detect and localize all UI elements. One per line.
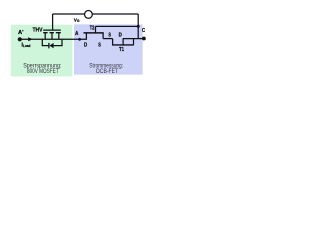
transistor T2 drain stub (85, 33, 87, 39)
transistor T1 left stub (112, 39, 114, 45)
transistor THV channel segments (43, 32, 61, 34)
body diode triangle (49, 43, 53, 48)
svg-text:C: C (142, 28, 145, 34)
svg-text:T2: T2 (90, 26, 95, 32)
transistor T2 source stub (102, 33, 104, 39)
node C dot (142, 37, 146, 41)
svg-text:S: S (98, 42, 101, 48)
wire: main load path left (20, 38, 87, 40)
svg-text:OCB-FET: OCB-FET (96, 68, 119, 75)
wire: T2 gate line (96, 25, 139, 27)
svg-text:S: S (108, 33, 111, 39)
voltage source V_G circle (85, 11, 93, 19)
svg-text:THV: THV (33, 27, 43, 33)
transistor THV gate bar (43, 29, 61, 31)
wire: gate rail top (53, 13, 139, 15)
current direction arrow (28, 37, 33, 41)
transistor T1 right stub (133, 39, 135, 45)
svg-text:VG: VG (74, 17, 80, 23)
transistor T2 gate vertical (95, 26, 97, 33)
transistor T2 channel bar (84, 32, 104, 34)
node A' dot (18, 37, 22, 41)
svg-text:D: D (119, 33, 122, 39)
body diode branch left leg (42, 39, 49, 45)
svg-text:D: D (84, 42, 87, 48)
svg-text:A: A (75, 31, 78, 37)
body diode branch right leg (53, 39, 62, 45)
svg-text:A': A' (18, 30, 24, 36)
transistor T1 mid vertical (122, 39, 124, 45)
transistor T1 channel bar (112, 44, 134, 46)
node A junction dot (78, 38, 81, 41)
junction dot gate line (137, 25, 140, 28)
body diode cathode bar (48, 43, 50, 49)
svg-text:800V MOSFET: 800V MOSFET (27, 68, 59, 75)
green panel: 800V MOSFET section (11, 25, 73, 77)
wire: between T2 and T1 (103, 38, 113, 40)
wire: right vertical to node C branch (137, 14, 139, 39)
transistor THV terminal stubs (45, 33, 59, 40)
svg-text:T1: T1 (119, 47, 124, 53)
transistor THV gate lead (52, 14, 54, 30)
wire: to node C (123, 38, 144, 40)
svg-text:ILoad: ILoad (22, 42, 31, 48)
blue panel: OCB-FET section (74, 24, 143, 74)
